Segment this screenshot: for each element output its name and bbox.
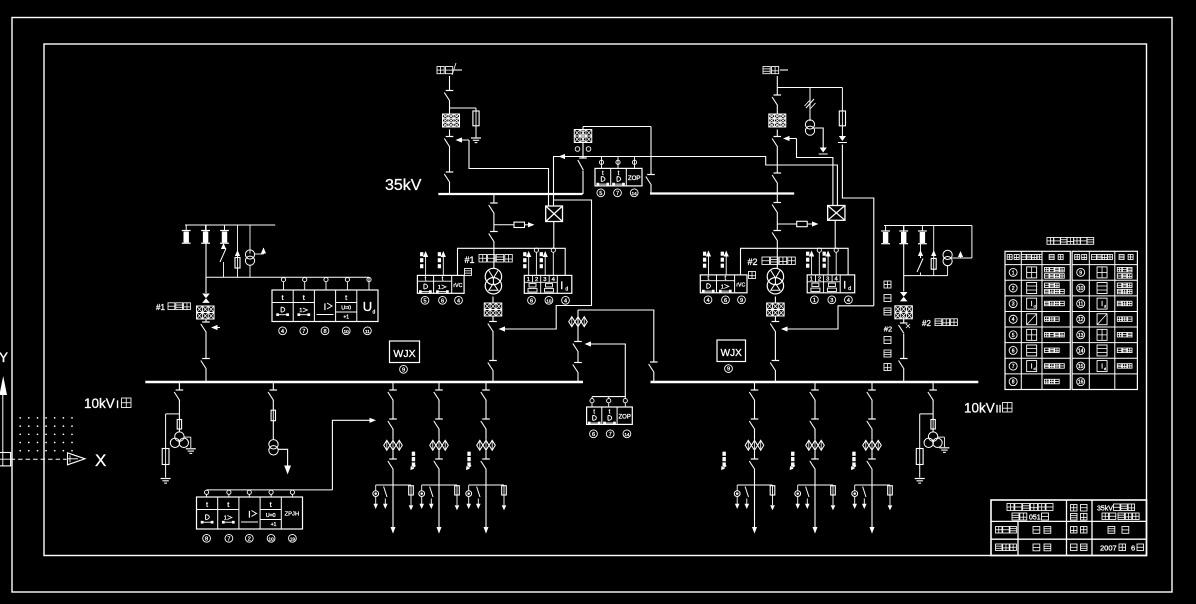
svg-text:t: t [227,500,230,509]
K21 terminal 4 [704,296,712,304]
svg-text:rVC: rVC [453,283,462,289]
station transformer feeder wire [272,383,274,440]
title field drawing-name [1071,505,1088,521]
K21 terminal 6 [722,296,730,304]
svg-text:4: 4 [706,298,709,304]
K11 terminal 5 [421,296,429,304]
svg-text:WJX: WJX [721,348,742,359]
cap2 switch tap [917,244,923,276]
svg-text:5: 5 [599,191,602,197]
svg-text:6: 6 [530,298,533,304]
title school name [1007,504,1053,522]
bus II PT feeder wire [932,383,934,432]
feeder relay box K4 (ZPJH) [197,497,303,529]
svg-text:#1: #1 [465,255,475,265]
F2 load arrow [284,466,291,475]
svg-text:d: d [1104,304,1106,309]
35kV bus section I [438,193,582,195]
disconnector QS24 [772,203,781,214]
feeder relay header wire [207,420,370,490]
svg-text:2: 2 [248,536,251,542]
10kV feeder at x439 [419,383,460,534]
PT2 ground wire [938,437,950,452]
tie current transformer [569,317,588,327]
axis label X [95,451,106,470]
svg-text:3: 3 [830,298,833,304]
PT2 winding circles [924,432,942,448]
svg-text:8: 8 [1012,380,1015,386]
svg-text:5: 5 [1012,333,1015,339]
bus tie relay box K3 [587,407,633,424]
PT1 fuse tap wire [166,414,180,449]
K3 terminal 7 [606,430,614,438]
cap2 PT [943,250,952,275]
disconnector QS16 [488,361,497,372]
power transformer T2 [767,268,783,294]
10kV feeder at x872 [852,383,893,534]
svg-text:4: 4 [847,298,850,304]
svg-text:7: 7 [227,536,230,542]
tie disconnector QS32 [649,362,658,373]
cap2 fuse tap [931,226,936,276]
svg-text:#2: #2 [884,325,892,334]
incoming source 1 label [437,63,462,75]
K22 signal column b [823,251,831,275]
svg-text:7: 7 [1012,364,1015,370]
10kV feeder at x754.5 [734,383,775,534]
cap2 arrester a [881,226,890,244]
bridge circuit breaker QF1 (X-box) [546,206,563,222]
current transformer TA1 [443,114,460,127]
T1 fuse tap [494,222,535,227]
title drafter label [996,544,1017,551]
F2 transformer circles [269,440,278,455]
disconnector QS11 [444,91,453,102]
10kV bus II [651,381,979,383]
cap2 arrester b [899,226,908,244]
svg-text:16: 16 [1078,380,1084,386]
voltage label 35kV [385,177,422,194]
relay K0 terminal 7 [614,189,622,197]
F2 series fuse [271,410,275,421]
T1 interlock wire loop [509,200,592,329]
svg-text:12: 12 [1078,317,1084,323]
F2 load wire [278,449,287,466]
feeder signal column c [721,452,726,470]
svg-text:11: 11 [365,329,370,334]
svg-text:4: 4 [1012,317,1015,323]
svg-text:10kV: 10kV [84,396,115,411]
svg-text:X: X [95,451,106,470]
cap2 bank label [922,319,957,328]
svg-text:d: d [373,309,376,315]
cap2 current transformer [895,306,913,319]
WJX-2 terminal 9 [725,365,733,373]
svg-text:2: 2 [818,277,821,283]
svg-text:ZOP: ZOP [628,175,641,182]
legend table left half [1005,251,1070,389]
svg-text:10: 10 [344,329,350,334]
PT1 disconnector [174,390,183,401]
svg-text:I: I [1031,301,1033,308]
svg-text:4: 4 [457,298,460,304]
svg-text:I: I [1101,301,1103,308]
title checker name [1108,527,1129,534]
tie breaker QF3 [573,342,582,353]
svg-text:U=0: U=0 [341,306,351,312]
K21 signal column a [703,251,711,275]
K12 terminal 10 [545,296,553,304]
relay K0 terminal 14 [630,189,638,197]
svg-text:9: 9 [727,367,730,373]
cap1 breaker with arrow [201,322,220,333]
cap2 sub wire [904,275,948,277]
svg-text:15: 15 [1078,364,1084,370]
cap2 arrester c [918,226,927,244]
voltage relay box WJX-1 [390,341,420,363]
svg-text:+1: +1 [271,522,277,528]
svg-text:2: 2 [1012,286,1015,292]
svg-text:3: 3 [826,277,829,283]
incoming line 1 wire [449,76,451,194]
svg-text:d: d [1034,366,1036,371]
svg-text:19: 19 [290,536,296,541]
svg-text:II: II [996,404,1002,416]
PT2 tap ground [915,465,925,484]
K22 terminal 4 [845,296,853,304]
wire FU2 ground to interlock [842,145,873,306]
svg-text:I: I [560,280,563,292]
svg-text:t: t [206,500,209,509]
svg-text:ZPJH: ZPJH [285,512,300,518]
cap1 PT arrow [255,248,267,255]
svg-text:I: I [116,399,119,411]
disconnector QS26 [770,361,779,372]
transformer 1 label [465,255,513,276]
title drawing name [1097,504,1139,520]
cap1 switch tap [220,243,226,277]
svg-text:10kV: 10kV [964,401,995,416]
cap1 relay header wire [206,277,369,290]
svg-text:t: t [282,293,285,302]
svg-text:d: d [848,286,851,292]
bridge top tie wire [583,127,651,195]
fuse FU2 [839,111,845,126]
svg-text:#2: #2 [922,319,931,328]
PT1 series fuse [177,420,181,430]
bridge circuit breaker QF2 (X-box) [828,206,845,221]
svg-text:1: 1 [299,308,302,314]
disconnector QS21 [772,95,781,106]
interlock wire to bridge 2 [797,139,833,206]
T1 relay header wire [458,248,566,275]
K13 terminal 8 [321,327,329,335]
bus I PT feeder wire [178,383,180,432]
disconnector QS23 [772,173,781,184]
svg-text:d: d [1104,366,1106,371]
axis dashed X line [11,458,67,460]
incoming source 2 label [763,67,788,74]
svg-text:#1: #1 [156,303,165,312]
legend table title [1047,238,1094,245]
svg-text:5: 5 [423,298,426,304]
cap2 drawout contacts [900,292,908,301]
svg-text:4: 4 [564,298,567,304]
svg-text:7: 7 [609,432,612,438]
svg-text:t: t [270,500,273,509]
T2 breaker with interlock arrow [770,322,791,333]
10kV feeder at x486 [466,383,507,534]
cap2 PT arrow wire [952,226,972,259]
K4 terminal 2 [245,534,253,542]
wire QF2 to transformer 2 relay line [834,220,836,248]
capacitor bank 2 top wire [884,225,972,227]
relay K0 terminal 5 [597,189,605,197]
K11 terminal 6 [439,296,447,304]
cap2 disconnector [899,359,908,370]
svg-text:Y: Y [0,350,8,365]
fuse FU1 [473,111,479,126]
svg-text:WJX: WJX [393,348,415,360]
T2 fuse tap [777,221,818,226]
svg-text:2: 2 [535,277,538,283]
T2 protection relay box K21 [700,275,747,293]
PT1 tap fuse [162,449,169,465]
svg-text:13: 13 [1078,333,1084,339]
svg-text:11: 11 [1078,302,1083,308]
K21 signal column b [721,251,729,275]
T2 relay header wire [741,248,849,275]
svg-text:ZOP: ZOP [619,415,631,421]
svg-text:9: 9 [1079,270,1082,276]
power transformer T1 [485,268,501,294]
line 2 fuse wire [841,88,843,112]
protection panel vertical label [884,281,892,371]
K12 signal column b [540,251,548,275]
surge arrester F2 [805,88,816,122]
T2 feeder wire [776,194,778,269]
PT2 series fuse [931,420,935,430]
K22 signal column a [806,251,814,275]
T2 interlock wire loop [791,306,874,329]
svg-text:1: 1 [1012,270,1015,276]
cap2 feeder wire [903,226,905,383]
disconnector QS25 [772,231,781,242]
tie disconnector QS31 [573,363,582,374]
svg-text:1: 1 [224,516,227,522]
10kV bus II label [964,401,1012,416]
svg-text:1: 1 [813,298,816,304]
K12 terminal 6 [528,296,536,304]
title date value [1100,544,1144,553]
T2 differential relay box K22 [807,275,855,293]
cap1 relay stub circles [281,278,371,291]
K4 terminal 10 [267,534,275,542]
K13 terminal 10 [342,327,350,335]
cap1 PT tap [245,225,254,277]
svg-text:1: 1 [721,284,724,290]
axis Y arrow [0,376,7,452]
title designer name [1033,527,1051,534]
wire QF1 to transformer relay line [553,222,555,249]
10kV feeder at x393 [373,383,414,534]
tie relay stub circles [590,397,628,407]
T1 secondary wire [492,297,494,383]
svg-text:I: I [1101,364,1103,371]
F2 disconnector [268,390,277,401]
svg-text:9: 9 [740,298,743,304]
cap1 arrester b [201,225,210,243]
svg-text:6: 6 [1131,544,1135,553]
svg-text:10: 10 [1078,286,1084,292]
TV2 ground wire [815,128,828,154]
feeder signal column e [851,452,856,470]
cap1 arrester a [182,225,191,243]
svg-text:6: 6 [441,298,444,304]
current transformer TA21 [767,303,785,316]
cap1 bank label [156,303,190,312]
PT1 ground wire [184,437,196,453]
line 2 top tap wire [777,87,842,89]
PT2 tap fuse [916,449,923,465]
K12 terminal 4 [562,296,570,304]
svg-text:t: t [609,410,611,416]
legend table right half [1072,251,1137,389]
tie interlock arrow wire [585,341,626,396]
svg-text:t: t [345,293,348,302]
ground arrow at FU2 [838,126,847,143]
K4 terminal 8 [203,534,211,542]
PT1 tap ground [161,465,171,484]
svg-text:U: U [363,299,372,314]
current transformer TA2 [769,114,786,127]
T1 differential relay box K12 [524,275,572,293]
svg-text:t: t [618,171,620,177]
PT2 disconnector [928,390,937,401]
title drafter name [1033,544,1051,551]
K4 terminal 19 [289,534,297,542]
current transformer TA0 [574,130,592,143]
K4 terminal 7 [225,534,233,542]
disconnector QS02 on tie [646,175,655,186]
capacitor bank 1 top wire [185,224,275,226]
K21 terminal 9 [738,296,746,304]
svg-text:35kV: 35kV [385,177,422,194]
svg-text:+1: +1 [343,315,349,321]
svg-text:6: 6 [1012,348,1015,354]
svg-text:7: 7 [616,191,619,197]
drawing inner border frame [44,44,1147,556]
disconnector QS13 [444,172,453,183]
T1 feeder wire [493,194,495,269]
K13 terminal 4 [279,327,287,335]
title checker label [1071,527,1088,534]
svg-text:8: 8 [205,536,208,542]
bus tie cross wire [578,310,654,382]
svg-text:U=0: U=0 [266,513,276,519]
voltage transformer TV2 [805,120,814,135]
svg-text:1: 1 [438,285,441,291]
svg-text:3: 3 [543,277,546,283]
svg-text:4: 4 [281,329,284,335]
35kV protection relay box K0 [595,168,642,186]
relay K0 stub wires [599,157,636,169]
title date label [1071,544,1088,551]
svg-text:1: 1 [810,277,813,283]
feeder signal column a [410,452,415,470]
feeder signal column b [466,452,471,470]
disconnector QS12 with open arrow [444,137,469,148]
PT2 fuse tap wire [920,414,933,449]
10kV feeder at x815 [795,383,836,534]
PT1 winding circles [170,432,188,448]
K22 terminal 3 [828,296,836,304]
svg-text:051: 051 [1029,515,1041,522]
svg-text:d: d [1034,304,1036,309]
title block frame [991,500,1147,556]
svg-text:6: 6 [724,298,727,304]
cap1 relay box K13 [272,290,378,322]
T1 protection relay box K11 [417,275,464,293]
feeder relay interlock arrow [370,418,377,423]
svg-text:I: I [1031,364,1033,371]
svg-text:10: 10 [546,298,552,303]
CT polarity marks [575,147,591,152]
svg-text:9: 9 [402,367,405,373]
svg-text:I: I [248,510,251,521]
svg-text:14: 14 [632,191,638,196]
svg-text:t: t [593,410,595,416]
interlock wire to bridge left [469,140,549,206]
axis origin box [0,453,11,467]
disconnector QS22 with open arrow [772,136,796,147]
svg-text:35kV: 35kV [1097,506,1113,513]
bus tie upper wire [577,310,579,382]
disconnector QS01 on tie [578,158,587,170]
K3 terminal 14 [623,430,631,438]
svg-text:8: 8 [323,329,326,335]
cap1 arrester c [220,225,229,243]
T1 breaker with interlock arrow [488,322,509,333]
svg-text:rVC: rVC [736,283,745,289]
svg-text:14: 14 [624,432,630,437]
reference dot grid [19,417,73,452]
T2 relay stub circles [817,248,838,275]
K13 terminal 11 [364,327,372,335]
svg-text:14: 14 [1078,348,1084,354]
svg-text:I: I [843,279,846,291]
svg-text:1: 1 [527,277,530,283]
transformer 2 label [748,257,796,279]
WJX-1 terminal 9 [400,365,408,373]
35kV bus section II [650,192,794,194]
svg-text:6: 6 [592,432,595,438]
10kV bus I label [84,396,131,411]
axis label Y [0,350,8,365]
svg-text:t: t [303,293,306,302]
K12 signal column a [524,251,532,275]
K22 terminal 1 [811,296,819,304]
K11 signal column a [420,251,428,275]
10kV bus I [145,381,583,383]
voltage relay box WJX-2 [717,340,746,362]
feeder signal column d [790,452,795,470]
disconnector QS15 [489,232,498,243]
svg-text:10: 10 [269,536,275,541]
cap1 feeder wire [205,225,207,382]
T1 relay stub circles [534,248,555,275]
K11 terminal 4 [455,296,463,304]
